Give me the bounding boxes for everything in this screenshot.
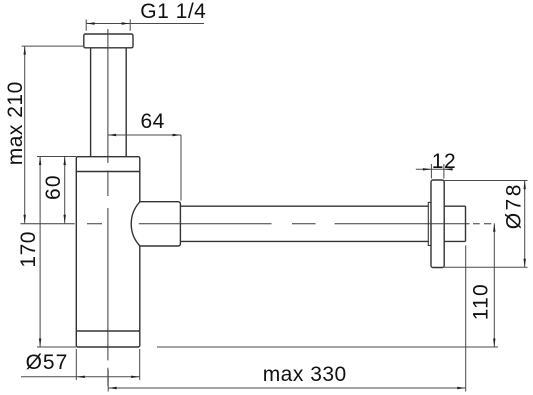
dim 12 line	[416, 168, 453, 170]
arrow O57 left	[76, 376, 85, 378]
arrow O57 right	[131, 376, 140, 378]
dim max330 left extension	[107, 370, 109, 392]
dim G1 1/4 extension ticks	[86, 19, 130, 30]
arrow 170 up	[39, 157, 41, 166]
dim O78 bottom extension	[444, 266, 527, 268]
dim 64 line	[108, 134, 181, 136]
svg-text:G1 1/4: G1 1/4	[140, 0, 206, 23]
arrow 110 down	[493, 339, 495, 348]
vertical centerline	[107, 29, 109, 386]
dim 64 right extension	[180, 135, 182, 201]
arrow 170 down	[39, 339, 41, 348]
dim 110 bottom extension	[157, 346, 498, 348]
inlet pipe left wall	[90, 48, 92, 157]
arrow G1 right	[122, 22, 131, 24]
trap body	[76, 157, 140, 347]
side outlet nut	[131, 202, 180, 246]
svg-text:max 330: max 330	[263, 363, 347, 386]
arrow O78 up	[524, 181, 526, 190]
svg-text:Ø57: Ø57	[26, 351, 69, 374]
svg-text:max 210: max 210	[4, 81, 27, 165]
dim O57 extensions	[76, 349, 139, 380]
arrow max330 right	[457, 387, 466, 389]
arrow 60 down	[64, 215, 66, 224]
svg-text:Ø78: Ø78	[502, 182, 525, 229]
svg-text:60: 60	[42, 174, 65, 200]
dim 110 line	[493, 223, 495, 347]
svg-text:110: 110	[470, 283, 493, 320]
dim 60 line	[64, 157, 66, 224]
arrow 12 right inward	[444, 168, 453, 170]
inlet pipe right wall	[125, 48, 127, 157]
arrow 60 up	[64, 157, 66, 166]
dim max210 top extension	[22, 45, 84, 47]
wall rosette disc	[431, 180, 444, 268]
dim 170 bottom extension	[37, 346, 76, 348]
dim O78 top extension	[444, 180, 527, 182]
dim O57 line	[21, 376, 140, 378]
outlet pipe top wall	[180, 205, 465, 207]
outlet pipe end	[465, 206, 467, 241]
dim O78 line	[524, 181, 526, 268]
outlet pipe bottom wall	[180, 240, 465, 242]
dim 170 line	[39, 157, 41, 348]
dim 12 extension ticks	[431, 164, 444, 179]
svg-text:64: 64	[141, 110, 165, 133]
arrow 110 up	[493, 223, 495, 232]
arrow 12 left inward	[423, 168, 432, 170]
arrow O78 down	[524, 259, 526, 268]
arrow 64 right	[173, 134, 182, 136]
body bottom joint line	[76, 330, 140, 332]
horizontal centerline	[21, 223, 492, 225]
arrow 64 left	[108, 134, 117, 136]
dim G1 1/4 line with leader	[86, 23, 204, 25]
wall collar ring	[428, 202, 431, 245]
svg-text:12: 12	[432, 150, 456, 173]
arrow max330 left	[108, 387, 117, 389]
body cap joint line	[76, 171, 140, 173]
dim max330 right extension	[465, 246, 467, 392]
svg-text:170: 170	[17, 231, 40, 268]
dim max210 line	[24, 46, 26, 223]
arrow max210 up	[24, 46, 26, 55]
top nut flange	[84, 34, 133, 48]
dim 170/60 top extension	[37, 156, 76, 158]
arrow G1 left	[86, 22, 95, 24]
arrow max210 down	[24, 215, 26, 224]
dim max330 line	[108, 387, 466, 389]
